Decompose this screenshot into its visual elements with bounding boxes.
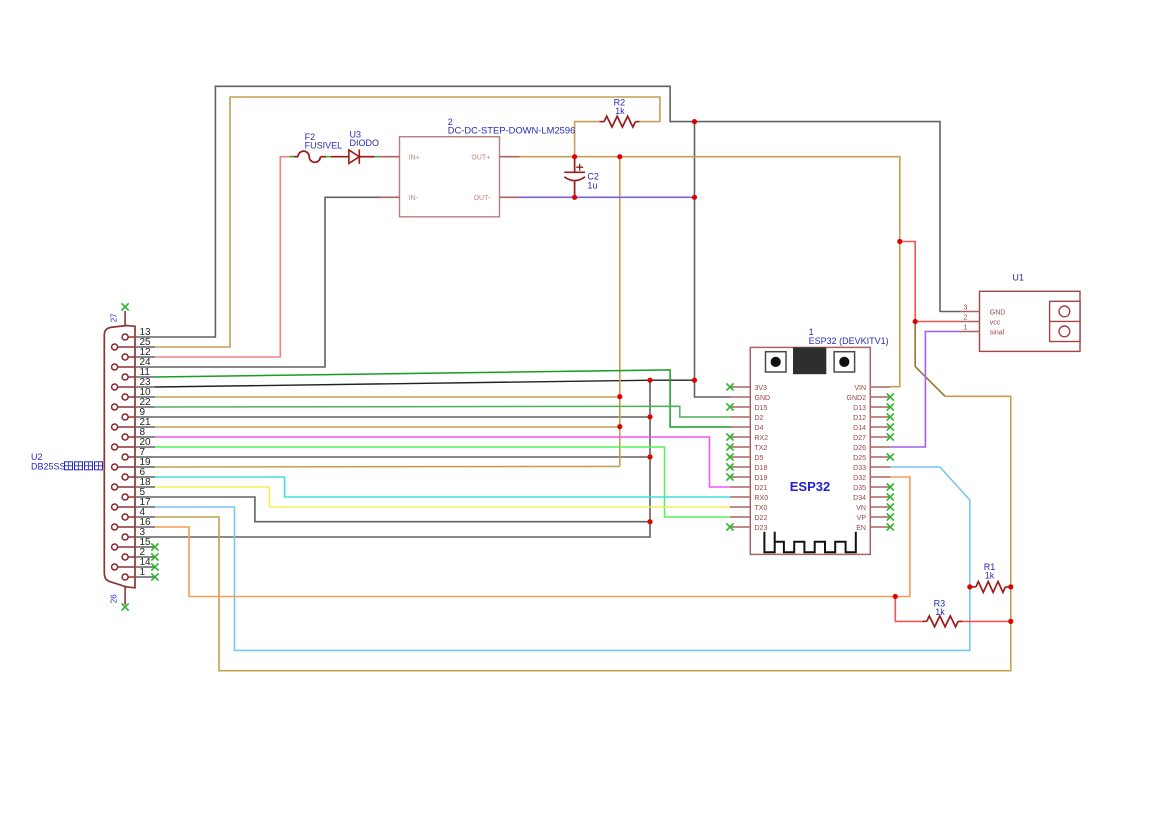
- junction orange/R3: [893, 594, 898, 599]
- resistor R3 left lead: [922, 620, 926, 622]
- no-connect X VN: [887, 503, 894, 510]
- svg-text:U2: U2: [31, 452, 43, 462]
- U2 pin 14: [118, 566, 135, 568]
- svg-text:ESP32 (DEVKITV1): ESP32 (DEVKITV1): [809, 336, 889, 346]
- wire pin17-R1-D33 (light blue): [155, 467, 970, 650]
- wire pin9 to gray bus: [155, 416, 650, 418]
- no-connect X D27: [887, 433, 894, 440]
- wire VCC diagonal (dark tan): [915, 322, 945, 397]
- fuse F2: [298, 151, 320, 162]
- ESP32 pin EN: [870, 526, 890, 528]
- ESP32 pin VP: [870, 516, 890, 518]
- resistor R1: [976, 582, 1006, 593]
- no-connect X pin14: [151, 563, 158, 570]
- svg-text:vcc: vcc: [990, 319, 1001, 326]
- ESP32 pin 3V3: [730, 386, 750, 388]
- gray bus x694 to ESP32 GND: [695, 122, 731, 397]
- junction vcc branch: [897, 239, 902, 244]
- svg-text:1k: 1k: [935, 607, 945, 617]
- ESP32 pin D22: [730, 516, 750, 518]
- ESP32 pin D12: [870, 416, 890, 418]
- wire pin11 to D4 (dark green): [155, 370, 730, 427]
- ESP32 pin D19: [730, 476, 750, 478]
- wire pin22 to D2 (green): [155, 406, 730, 417]
- LM2596 pin OUT-: [500, 196, 520, 198]
- U2 pin 23: [118, 386, 135, 388]
- ESP32 button left: [766, 352, 787, 372]
- svg-text:1k: 1k: [615, 106, 625, 116]
- U2 pin 26 stub: [124, 587, 126, 605]
- svg-text:D35: D35: [853, 485, 866, 492]
- resistor R2 left lead: [599, 121, 604, 123]
- ESP32 pin D34: [870, 496, 890, 498]
- label DB25SS CJK glyphs: [65, 462, 73, 470]
- U2 pin 5: [128, 496, 135, 498]
- junction pin5/gray bus: [647, 519, 652, 524]
- junction OUT+/gold bus: [617, 154, 622, 159]
- svg-text:D4: D4: [755, 425, 764, 432]
- ESP32 pin D21: [730, 486, 750, 488]
- fuse F2 left lead: [290, 156, 298, 158]
- diode U3 left lead: [331, 156, 349, 158]
- svg-text:26: 26: [109, 594, 118, 603]
- ESP32 pin D25: [870, 456, 890, 458]
- U2 pin 20: [118, 446, 135, 448]
- junction R3 right/VCC rail: [1008, 619, 1013, 624]
- resistor R2 right lead: [636, 121, 640, 123]
- resistor R3 right lead: [958, 620, 962, 622]
- LM2596 pin IN+: [380, 156, 400, 158]
- wire pin8 to D21 (magenta): [155, 437, 730, 487]
- wire pin10 to gold bus: [155, 396, 620, 398]
- svg-text:VP: VP: [857, 515, 867, 522]
- fuse F2 right lead: [320, 156, 326, 158]
- no-connect X D12: [887, 413, 894, 420]
- U2 pin 2: [128, 556, 135, 558]
- connector U1 box: [980, 291, 1081, 351]
- svg-text:1u: 1u: [587, 180, 597, 190]
- ESP32 antenna meander: [764, 532, 855, 553]
- U2 pin 24: [118, 366, 135, 368]
- svg-text:DIODO: DIODO: [350, 138, 380, 148]
- U2 pin 6: [128, 476, 135, 478]
- svg-text:EN: EN: [856, 525, 866, 532]
- ESP32 pin D14: [870, 426, 890, 428]
- U2 pin 18: [118, 486, 135, 488]
- ESP32 pin GND2: [870, 396, 890, 398]
- ESP32 button right: [834, 352, 855, 372]
- svg-text:TX0: TX0: [755, 505, 768, 512]
- no-connect X TX2: [726, 443, 733, 450]
- svg-text:D26: D26: [853, 445, 866, 452]
- no-connect X 3V3: [726, 383, 733, 390]
- no-connect X D25: [887, 453, 894, 460]
- svg-text:1: 1: [140, 567, 146, 578]
- junction pin9/gray bus: [647, 414, 652, 419]
- svg-text:ESP32: ESP32: [790, 479, 830, 494]
- wire pin7 to gray bus: [155, 456, 650, 458]
- svg-text:D25: D25: [853, 455, 866, 462]
- ESP32 pin D32: [870, 476, 890, 478]
- U2 pin 3: [128, 536, 135, 538]
- no-connect X EN: [887, 523, 894, 530]
- wire pin18 to TX0 (yellow): [155, 487, 730, 507]
- no-connect X pin15: [151, 543, 158, 550]
- capacitor C2: [574, 157, 576, 173]
- wire pin23 (black) to GND bus: [155, 380, 695, 387]
- svg-text:D13: D13: [853, 405, 866, 412]
- no-connect X pin26: [122, 603, 129, 610]
- ESP32 pin VIN: [870, 386, 890, 388]
- junction pin23/gray bus: [647, 378, 652, 383]
- svg-text:1k: 1k: [985, 571, 995, 581]
- wire R2 left to OUT+ (gold): [575, 122, 600, 157]
- svg-text:3V3: 3V3: [755, 385, 768, 392]
- diode pin end marks (green): [375, 156, 380, 158]
- wire vcc branch to U1.vcc (red): [900, 242, 960, 322]
- svg-text:D33: D33: [853, 465, 866, 472]
- junction OUT-/C2: [572, 195, 577, 200]
- U2 pin 9: [128, 416, 135, 418]
- svg-text:3: 3: [964, 304, 968, 311]
- wire pin21 to gold bus: [155, 426, 620, 428]
- resistor R2: [604, 116, 635, 127]
- svg-text:D27: D27: [853, 435, 866, 442]
- junction gray top: [692, 119, 697, 124]
- ESP32 module U? box: [750, 347, 870, 554]
- junction pin23/GND bus: [692, 378, 697, 383]
- ESP32 pin D4: [730, 426, 750, 428]
- svg-text:VIN: VIN: [854, 385, 866, 392]
- junction vcc/U1: [913, 319, 918, 324]
- wire pin3 + gray bus x650: [155, 380, 650, 537]
- junction OUT+/C2/R2: [572, 154, 577, 159]
- svg-text:FUSIVEL: FUSIVEL: [305, 141, 343, 151]
- no-connect X D35: [887, 483, 894, 490]
- no-connect X D18: [726, 463, 733, 470]
- no-connect X pin1: [151, 573, 158, 580]
- svg-text:D12: D12: [853, 415, 866, 422]
- svg-text:D23: D23: [755, 525, 768, 532]
- no-connect X D14: [887, 423, 894, 430]
- junction R1 left/light blue: [967, 584, 972, 589]
- diode U3 right lead: [359, 156, 374, 158]
- U2 pin 15: [118, 546, 135, 548]
- U2 pin 19: [118, 466, 135, 468]
- no-connect X D23: [726, 523, 733, 530]
- svg-text:D21: D21: [755, 485, 768, 492]
- U1 terminal block: [1050, 301, 1080, 341]
- wire D26 to U1.sinal (violet): [890, 332, 960, 448]
- svg-text:D19: D19: [755, 475, 768, 482]
- svg-text:IN-: IN-: [409, 195, 419, 202]
- no-connect X RX2: [726, 433, 733, 440]
- svg-text:GND2: GND2: [847, 395, 867, 402]
- svg-text:VN: VN: [856, 505, 866, 512]
- U2 pin 7: [128, 456, 135, 458]
- ESP32 pin RX0: [730, 496, 750, 498]
- ESP32 pin D5: [730, 456, 750, 458]
- svg-text:GND: GND: [755, 395, 771, 402]
- wire pin20 to D22 (bright green): [155, 447, 730, 517]
- wire pin4 VCC rail (tan): [155, 396, 1011, 670]
- U2 pin 13: [128, 336, 135, 338]
- ESP32 pin D26: [870, 446, 890, 448]
- ESP32 pin D27: [870, 436, 890, 438]
- fuse pin end marks (green): [290, 156, 295, 158]
- svg-text:D15: D15: [755, 405, 768, 412]
- svg-text:IN+: IN+: [409, 155, 420, 162]
- wire pin25 to R2 (gold): [155, 97, 660, 347]
- svg-text:D34: D34: [853, 495, 866, 502]
- ESP32 pin D33: [870, 466, 890, 468]
- svg-text:TX2: TX2: [755, 445, 768, 452]
- no-connect X D5: [726, 453, 733, 460]
- ESP32 pin D23: [730, 526, 750, 528]
- ESP32 pin TX0: [730, 506, 750, 508]
- wire pin13-U1.GND (gray): [155, 86, 960, 337]
- svg-text:DB25SS: DB25SS: [31, 462, 66, 472]
- svg-text:D18: D18: [755, 465, 768, 472]
- junction R1 right/VCC rail: [1008, 584, 1013, 589]
- dc-dc module U? LM2596 box: [400, 137, 500, 217]
- U2 pin 17: [118, 506, 135, 508]
- svg-text:D22: D22: [755, 515, 768, 522]
- resistor R1 left lead: [970, 586, 976, 588]
- ESP32 USB connector: [793, 347, 826, 374]
- no-connect X pin2: [151, 553, 158, 560]
- wire OUT- to GND bus (purple): [520, 196, 695, 198]
- resistor R1 right lead: [1005, 586, 1010, 588]
- LM2596 pin OUT+: [500, 156, 520, 158]
- U2 pin 22: [118, 406, 135, 408]
- svg-text:DC-DC-STEP-DOWN-LM2596: DC-DC-STEP-DOWN-LM2596: [448, 125, 576, 136]
- ESP32 pin D13: [870, 406, 890, 408]
- junction OUT-/GND bus: [692, 195, 697, 200]
- wire pin19 to gold bus: [155, 465, 620, 468]
- svg-text:D32: D32: [853, 475, 866, 482]
- wire orange-junction to R3 (red): [895, 597, 922, 622]
- no-connect X pin27: [122, 303, 129, 310]
- no-connect X D34: [887, 493, 894, 500]
- svg-text:RX2: RX2: [755, 435, 769, 442]
- U2 pin 10: [128, 396, 135, 398]
- gold bus x620: [619, 157, 621, 467]
- no-connect X GND2: [887, 393, 894, 400]
- wire pin24-IN- (gray): [155, 197, 380, 367]
- svg-text:D5: D5: [755, 455, 764, 462]
- resistor R3: [927, 616, 958, 627]
- junction pin10/gold bus: [617, 394, 622, 399]
- U2 pin 8: [128, 436, 135, 438]
- wire pin12 to fuse (salmon): [155, 157, 294, 357]
- U2 pin 21: [118, 426, 135, 428]
- ESP32 pin TX2: [730, 446, 750, 448]
- svg-text:D14: D14: [853, 425, 866, 432]
- no-connect X D19: [726, 473, 733, 480]
- U2 pin 11: [128, 376, 135, 378]
- svg-text:1: 1: [964, 324, 968, 331]
- no-connect X D13: [887, 403, 894, 410]
- svg-text:27: 27: [109, 313, 118, 322]
- U1 pin 2 vcc: [960, 321, 980, 323]
- connector U2 DB25 body: [104, 326, 135, 588]
- svg-text:OUT-: OUT-: [474, 195, 491, 202]
- wire pin6 to RX0 (cyan): [155, 477, 730, 497]
- ESP32 pin VN: [870, 506, 890, 508]
- ESP32 pin D15: [730, 406, 750, 408]
- U2 pin 27 stub: [124, 311, 126, 326]
- U2 pin 1: [128, 576, 135, 578]
- ESP32 pin D35: [870, 486, 890, 488]
- wire R3 to VCC rail (red): [963, 620, 1011, 622]
- U2 pin 4: [128, 516, 135, 518]
- no-connect X D15: [726, 403, 733, 410]
- U2 pin 16: [118, 526, 135, 528]
- svg-text:GND: GND: [990, 309, 1006, 316]
- junction pin21/gold bus: [617, 424, 622, 429]
- no-connect X VP: [887, 513, 894, 520]
- wire pin5 to gray bus: [155, 497, 650, 522]
- junction pin7/gray bus: [647, 454, 652, 459]
- svg-text:2: 2: [964, 314, 968, 321]
- svg-text:U1: U1: [1012, 273, 1024, 283]
- LM2596 pin IN-: [380, 196, 400, 198]
- svg-text:D2: D2: [755, 415, 764, 422]
- ESP32 pin D18: [730, 466, 750, 468]
- ESP32 pin GND: [730, 396, 750, 398]
- U1 pin 1 sinal: [960, 331, 980, 333]
- ESP32 pin RX2: [730, 436, 750, 438]
- U2 pin 12: [128, 356, 135, 358]
- wire OUT+ to ESP32 VIN (gold): [520, 157, 900, 387]
- wire pin16 to D32 (orange): [155, 477, 910, 597]
- svg-text:sinal: sinal: [990, 329, 1005, 336]
- diode U3: [349, 150, 359, 164]
- svg-text:OUT+: OUT+: [471, 155, 490, 162]
- ESP32 pin D2: [730, 416, 750, 418]
- U1 pin 3 GND: [960, 311, 980, 313]
- svg-text:RX0: RX0: [755, 495, 769, 502]
- C2 plus sign: [576, 164, 583, 171]
- U2 pin 25: [118, 346, 135, 348]
